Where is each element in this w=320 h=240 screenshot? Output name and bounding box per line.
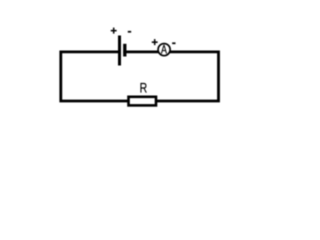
svg-text:+: + bbox=[110, 25, 116, 37]
svg-text:+: + bbox=[151, 37, 157, 49]
svg-text:-: - bbox=[172, 36, 176, 50]
svg-text:A: A bbox=[161, 43, 168, 57]
svg-text:-: - bbox=[128, 24, 132, 38]
svg-text:R: R bbox=[140, 80, 148, 96]
